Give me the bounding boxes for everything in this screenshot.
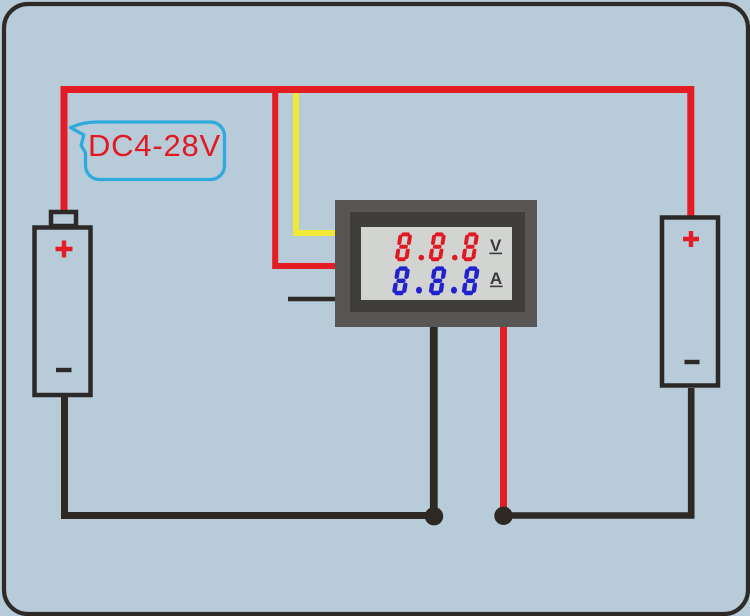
svg-text:V: V xyxy=(490,236,502,255)
meter U1 outer case xyxy=(335,200,537,327)
svg-text:DC4-28V: DC4-28V xyxy=(88,128,221,163)
meter U1 inner bezel xyxy=(350,212,525,312)
wire: bottom negative run from left battery to junction xyxy=(65,397,435,516)
battery BT1 minus mark xyxy=(56,368,72,372)
junction node: meter red lead to right battery xyxy=(494,507,512,525)
wire: bottom run from junction to right battery xyxy=(504,388,692,516)
wire: red positive rail from left battery over the top to right battery xyxy=(64,90,691,221)
wire: red drop from top rail into meter VCC xyxy=(275,93,340,266)
meter U1 display window xyxy=(361,227,512,300)
wire: meter red lead down xyxy=(500,320,507,516)
wire: meter black lead down xyxy=(430,320,438,516)
meter blue current digits 8.8.8 xyxy=(392,266,480,295)
battery BT2 plus mark xyxy=(683,231,699,247)
meter red voltage digits 8.8.8 xyxy=(394,232,479,261)
callout bubble DC4-28V xyxy=(71,122,225,180)
svg-text:A: A xyxy=(490,269,502,288)
junction node: meter black lead to battery minus xyxy=(425,507,443,525)
battery BT2 body xyxy=(662,218,718,386)
battery BT1 terminal cap xyxy=(51,212,76,226)
battery BT1 body xyxy=(35,228,91,396)
wire: black stub on meter left xyxy=(288,297,340,301)
battery BT2 minus mark xyxy=(685,360,700,364)
wire: yellow drop from top rail into meter xyxy=(296,93,340,233)
battery BT1 plus mark xyxy=(56,241,73,258)
